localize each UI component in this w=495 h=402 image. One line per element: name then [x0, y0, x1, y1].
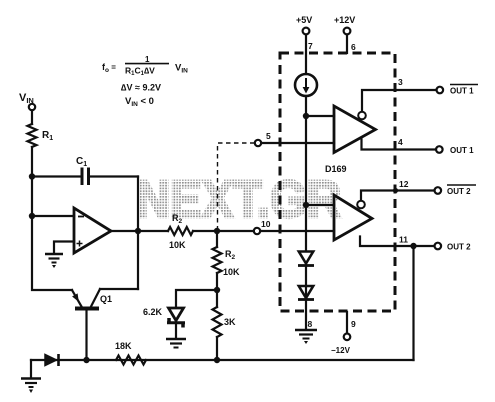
- svg-text:6: 6: [351, 42, 356, 52]
- svg-text:OUT 2: OUT 2: [447, 243, 471, 252]
- node pin10 terminal: [254, 228, 260, 234]
- bottom rail wire: [31, 359, 414, 361]
- svg-text:OUT 1: OUT 1: [450, 146, 474, 155]
- wire pin11 output: [360, 237, 435, 247]
- node comparator1 input junction: [303, 113, 309, 119]
- node B junction: [29, 213, 35, 219]
- svg-text:−12V: −12V: [331, 346, 351, 355]
- node output junction: [135, 228, 141, 234]
- wire to comparator2: [306, 204, 334, 206]
- svg-text:VIN < 0: VIN < 0: [125, 96, 154, 108]
- svg-text:Q1: Q1: [100, 294, 112, 304]
- resistor 3K: [213, 307, 222, 337]
- current source U1: [295, 74, 317, 96]
- ground bottom-left: [21, 379, 41, 394]
- svg-text:12: 12: [399, 179, 409, 189]
- svg-text:10: 10: [261, 219, 271, 229]
- node D junction: [214, 287, 220, 293]
- capacitor C1: [76, 156, 89, 185]
- resistor R2 vertical 10K: [216, 231, 218, 247]
- resistor R1: [28, 124, 37, 147]
- svg-text:D169: D169: [325, 164, 347, 174]
- wire R2v to node D: [216, 273, 218, 290]
- svg-text:18K: 18K: [115, 341, 132, 351]
- wire collector run: [100, 288, 138, 290]
- wire dashed pin5 feedback: [218, 143, 255, 229]
- node C junction: [214, 228, 220, 234]
- svg-text:11: 11: [399, 235, 408, 245]
- svg-text:3K: 3K: [224, 317, 236, 327]
- comparator U2a: [334, 106, 376, 153]
- wire pin8 to ground: [305, 266, 307, 329]
- node pin11 junction: [410, 243, 416, 249]
- wire pin3 from bubble: [362, 90, 437, 111]
- node OUT1 terminal: [436, 146, 443, 153]
- wire right vertical C1-output-collector: [137, 177, 139, 290]
- formula f_o = 1/(R1 C1 dV) VIN: [102, 55, 188, 108]
- diode D2 in IC: [298, 252, 314, 266]
- node OUT2 terminal: [435, 243, 442, 250]
- comparator U2b: [334, 195, 372, 240]
- svg-text:1: 1: [145, 55, 150, 64]
- wire current source to diodes: [305, 96, 307, 250]
- diode D1 bottom-left: [45, 354, 59, 366]
- wire node A to C1: [32, 175, 81, 177]
- svg-text:+5V: +5V: [296, 15, 312, 25]
- node A junction: [29, 173, 35, 179]
- node OUT2bar terminal: [435, 187, 442, 194]
- wire R2 to node C: [193, 230, 254, 232]
- zener diode 6.2K: [143, 307, 185, 338]
- wire op-amp output: [111, 230, 168, 232]
- wire pin 7: [305, 35, 307, 75]
- wire pin12 from bubble: [361, 191, 435, 201]
- wire left ground drop: [30, 360, 32, 377]
- wire op-amp minus input: [32, 215, 74, 217]
- svg-text:10K: 10K: [169, 240, 186, 250]
- svg-text:OUT 2: OUT 2: [447, 187, 471, 196]
- node OUT1bar terminal: [437, 87, 444, 94]
- wire op-amp plus input to ground: [54, 242, 74, 253]
- node 3K junction: [214, 357, 220, 363]
- wire to comparator1: [306, 115, 334, 117]
- IC D169 dashed box: [280, 53, 395, 311]
- svg-text:+12V: +12V: [334, 15, 355, 25]
- wire pin10 to comparator2: [261, 230, 335, 232]
- ground IC pin8: [295, 330, 317, 344]
- svg-text:9: 9: [351, 319, 356, 329]
- svg-text:R1C1∆V: R1C1∆V: [125, 66, 155, 78]
- node -12V terminal: [344, 334, 351, 341]
- diode D3 in IC: [298, 286, 314, 300]
- svg-text:10K: 10K: [223, 267, 240, 277]
- svg-text:∆V ≈ 9.2V: ∆V ≈ 9.2V: [121, 83, 161, 93]
- svg-text:6.2K: 6.2K: [143, 307, 163, 317]
- wire pin5 to comparator1: [262, 142, 335, 144]
- op-amp U1: [74, 208, 111, 253]
- wire R1 to node A: [31, 147, 33, 176]
- ground zener: [166, 339, 186, 348]
- svg-text:NEXT.GR: NEXT.GR: [136, 171, 341, 229]
- wire pin9: [346, 312, 348, 333]
- wire C1 to right vertical: [89, 175, 139, 177]
- svg-text:3: 3: [398, 77, 403, 87]
- wire node A to op-amp input node: [31, 177, 33, 217]
- wire pin4 output: [362, 140, 437, 150]
- wire left rail down to Q1 emitter: [32, 216, 72, 290]
- node box edge dot pin12: [393, 188, 398, 193]
- resistor R2 horizontal 10K: [168, 227, 193, 235]
- svg-text:OUT 1: OUT 1: [450, 87, 474, 96]
- wire VIN to R1: [31, 110, 33, 124]
- wire feedback pin11 to bottom rail: [412, 246, 414, 360]
- ground op-amp: [45, 254, 63, 268]
- svg-text:4: 4: [398, 137, 403, 147]
- node Q1 base junction: [83, 357, 89, 363]
- node pin5 terminal: [255, 140, 261, 146]
- resistor 18K: [116, 356, 146, 365]
- wire pin 6: [346, 35, 348, 54]
- wire node D to zener: [176, 290, 217, 307]
- svg-text:7: 7: [308, 41, 313, 51]
- node comparator2 input junction: [303, 202, 309, 208]
- svg-text:8: 8: [308, 319, 313, 329]
- transistor Q1: [72, 289, 112, 360]
- svg-text:5: 5: [266, 131, 271, 141]
- wire 3K to bottom rail: [216, 290, 218, 360]
